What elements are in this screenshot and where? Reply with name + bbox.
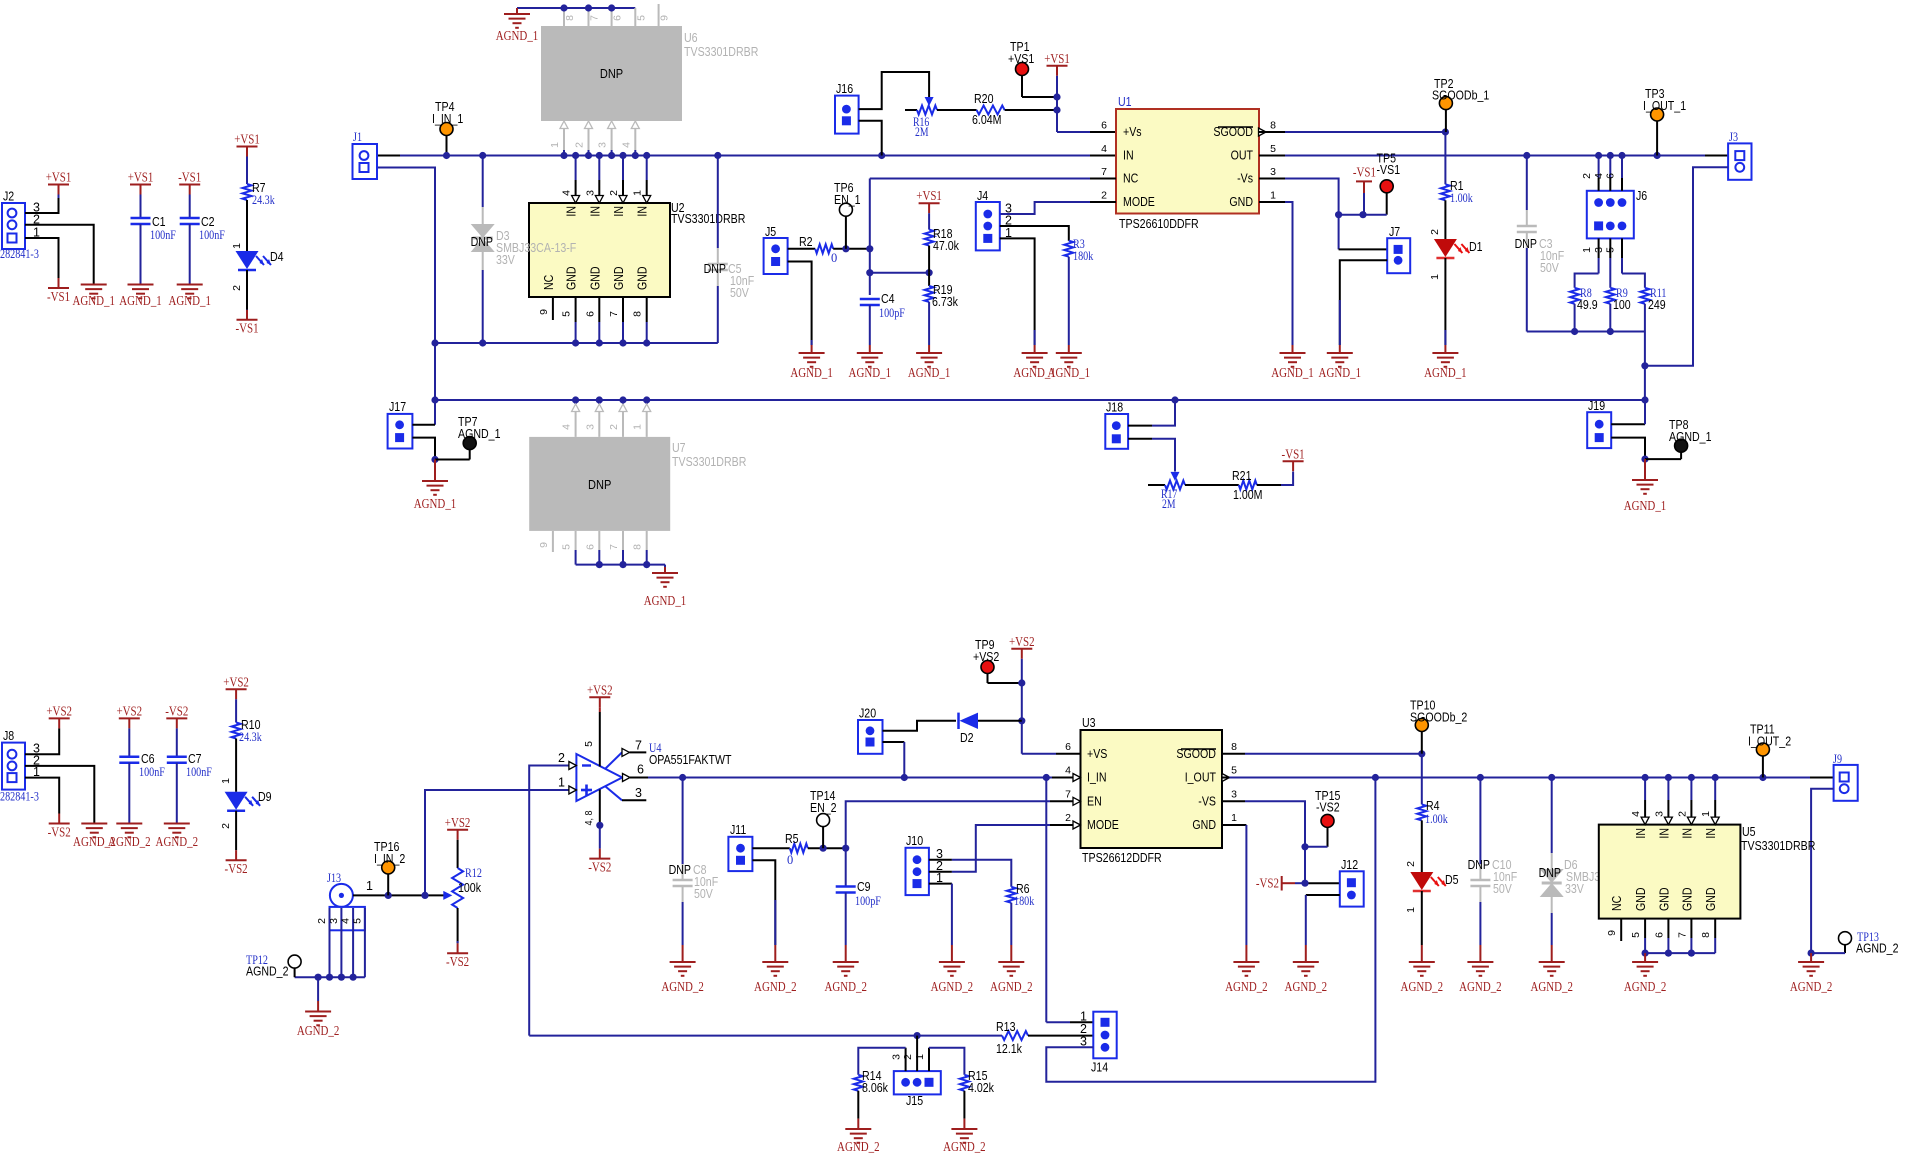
- wire EN divider: [870, 272, 929, 274]
- ground AGND_1 J4: [1034, 345, 1036, 353]
- svg-text:+VS2: +VS2: [587, 683, 613, 698]
- IC U2 TVS3301DRBR: [529, 203, 670, 297]
- svg-text:R13: R13: [996, 1020, 1016, 1034]
- svg-text:50V: 50V: [1540, 261, 1559, 275]
- svg-text:3: 3: [635, 786, 642, 800]
- wire U1 SGOOD to TP2/R1: [1259, 131, 1285, 133]
- svg-text:-VS1: -VS1: [178, 171, 201, 186]
- pin 8 U7 bottom: [646, 531, 648, 550]
- junction TP7 ground: [431, 456, 438, 463]
- svg-text:100nF: 100nF: [186, 764, 212, 779]
- capacitor C8 DNP: [682, 778, 684, 865]
- pin 7 U6 top: [588, 8, 590, 26]
- svg-text:6: 6: [584, 544, 596, 550]
- testpoint TP13 AGND_2: [1839, 932, 1852, 945]
- svg-text:180k: 180k: [1073, 248, 1094, 263]
- ground AGND_2 U3: [1245, 945, 1247, 962]
- wire return bus2: [435, 399, 1645, 401]
- capacitor C1 100nF: [131, 217, 151, 220]
- svg-text:180k: 180k: [1014, 893, 1035, 908]
- svg-text:5: 5: [1231, 765, 1237, 777]
- svg-text:8: 8: [1231, 741, 1237, 753]
- ground AGND_2 J11: [774, 945, 776, 962]
- testpoint TP8 AGND_1: [1675, 439, 1688, 452]
- junction TP8 ground: [1641, 456, 1648, 463]
- junctions J13 pin1 wire: [385, 892, 392, 899]
- svg-text:2M: 2M: [915, 125, 929, 139]
- svg-text:2: 2: [608, 424, 620, 430]
- pin 5 U6 top: [634, 8, 636, 26]
- svg-text:J3: J3: [1729, 129, 1738, 144]
- pin 9 U7: [552, 531, 554, 552]
- pin 9 U6 stub: [658, 4, 660, 26]
- svg-text:TVS3301DRBR: TVS3301DRBR: [1741, 839, 1815, 853]
- ground AGND_2 C7: [164, 823, 190, 825]
- svg-text:GND: GND: [1229, 195, 1253, 209]
- pin 6 U6 top: [611, 8, 613, 26]
- svg-text:IN: IN: [1657, 828, 1671, 839]
- svg-text:249: 249: [1648, 298, 1666, 312]
- svg-text:7: 7: [608, 311, 620, 317]
- wire J6 pin5 to R11: [1622, 274, 1645, 288]
- svg-text:2: 2: [608, 190, 620, 196]
- resistor R14 8.06k: [854, 1075, 863, 1091]
- svg-text:2: 2: [902, 1054, 914, 1060]
- connector J1: [353, 144, 378, 179]
- svg-text:-VS1: -VS1: [1353, 165, 1376, 180]
- resistor R4 1.00k: [1421, 754, 1423, 805]
- resistor R19 6.73k: [928, 273, 930, 286]
- pin 8 U6 top: [563, 8, 565, 26]
- svg-text:J2: J2: [3, 190, 14, 204]
- svg-text:AGND_1: AGND_1: [119, 294, 162, 309]
- capacitor C2 100nF: [180, 217, 200, 220]
- svg-text:100pF: 100pF: [855, 893, 881, 908]
- connector J3: [1728, 143, 1751, 179]
- ground AGND_1 U6: [516, 8, 518, 14]
- connector J4: [976, 202, 1000, 250]
- IC U6 TVS3301DRBR DNP: [541, 26, 682, 121]
- svg-text:EN: EN: [1087, 795, 1102, 809]
- svg-text:TPS26610DDFR: TPS26610DDFR: [1119, 217, 1199, 231]
- pin 4 J13 shield: [352, 908, 354, 977]
- svg-text:U6: U6: [684, 31, 698, 45]
- resistor R15 4.02k: [960, 1075, 969, 1091]
- pin 4 J6 top: [1609, 156, 1611, 179]
- pin 3 J6 bottom: [1609, 238, 1611, 258]
- pin 2 J6 top: [1598, 156, 1600, 179]
- wire J16 pin1 to R16 wiper: [859, 72, 930, 109]
- svg-text:AGND_2: AGND_2: [661, 980, 704, 995]
- svg-text:33V: 33V: [1565, 882, 1584, 896]
- ground AGND_2 J13: [305, 1011, 331, 1013]
- wire U7 ground: [576, 564, 665, 566]
- svg-text:4.02k: 4.02k: [968, 1081, 995, 1095]
- connector J14: [1093, 1012, 1116, 1059]
- resistor R13 12.1k: [917, 1035, 1002, 1037]
- wire U1 GND to ground: [1259, 201, 1285, 203]
- IC U3 TPS26612DDFR: [1081, 730, 1223, 848]
- wire J1 pin1 stub: [377, 155, 400, 157]
- capacitor C5 DNP: [717, 156, 719, 249]
- svg-text:AGND_1: AGND_1: [458, 427, 501, 441]
- pin 4 U5 IN: [1644, 778, 1646, 801]
- IC U7 TVS3301DRBR DNP: [529, 437, 670, 531]
- svg-text:AGND_2: AGND_2: [1624, 980, 1667, 995]
- svg-text:33V: 33V: [496, 253, 515, 267]
- svg-text:D4: D4: [270, 250, 284, 264]
- connector J19: [1587, 412, 1611, 448]
- svg-text:2: 2: [1101, 190, 1107, 202]
- svg-text:D1: D1: [1469, 240, 1483, 254]
- svg-text:2: 2: [316, 918, 328, 924]
- pin arrows U3: [1073, 774, 1081, 782]
- testpoint TP12 AGND_2: [288, 955, 301, 968]
- potentiometer R17 2M: [1171, 472, 1180, 481]
- power flag +VS1 J2: [48, 184, 69, 186]
- wire J8 pin2 to ground: [25, 766, 94, 824]
- svg-text:6: 6: [637, 763, 644, 777]
- wire J8 pin1 to -VS2: [25, 778, 59, 814]
- ground AGND_1 C2: [177, 284, 203, 286]
- svg-text:GND: GND: [1192, 818, 1216, 832]
- power flag +VS2 R10: [226, 688, 247, 690]
- svg-text:I_IN_2: I_IN_2: [374, 852, 405, 866]
- ground AGND_1 R3: [1068, 345, 1070, 353]
- pin 1 U2 IN: [646, 156, 648, 181]
- wire +VS2 to U3: [1021, 683, 1023, 754]
- resistor R5 0: [752, 847, 789, 849]
- svg-text:9: 9: [538, 542, 550, 548]
- svg-text:100: 100: [1613, 298, 1631, 312]
- svg-text:-VS: -VS: [1198, 795, 1216, 809]
- svg-text:EN_2: EN_2: [810, 801, 837, 815]
- svg-text:AGND_2: AGND_2: [943, 1140, 986, 1153]
- pin 1 U5 IN: [1714, 778, 1716, 801]
- wire J17 pin2 to ground: [412, 438, 435, 460]
- power flag -VS2 C7: [166, 717, 187, 719]
- svg-text:2: 2: [1065, 812, 1071, 824]
- svg-text:1: 1: [632, 424, 644, 430]
- pin 2 U7 top: [622, 400, 624, 404]
- pin 6 U5 GND: [1667, 919, 1669, 938]
- svg-text:IN: IN: [588, 206, 602, 217]
- wire I_IN to J14 pin1: [1045, 778, 1047, 1023]
- pin 5 U7 bottom: [575, 531, 577, 550]
- svg-text:7: 7: [1101, 166, 1107, 178]
- wire U1 -Vs to J7: [1259, 178, 1285, 180]
- junctions I_IN net: [679, 774, 686, 781]
- svg-text:U7: U7: [672, 441, 686, 455]
- wire opamp plus input: [425, 790, 569, 895]
- ground AGND_2 C8: [682, 945, 684, 962]
- wire U6 top ground net: [517, 7, 635, 9]
- svg-text:2: 2: [220, 823, 232, 829]
- svg-text:3: 3: [1593, 247, 1605, 253]
- wire J14 pin3 to I_OUT: [1046, 778, 1375, 1082]
- wire J10 pin1 to ground: [929, 883, 952, 885]
- svg-text:DNP: DNP: [588, 477, 611, 492]
- LED D5: [1410, 872, 1433, 890]
- junctions EN_2 node: [820, 845, 827, 852]
- pin 6 U2 GND: [598, 297, 600, 322]
- resistor R20 6.04M: [977, 106, 1005, 115]
- wire EN_2 to U3: [846, 801, 1050, 848]
- svg-text:GND: GND: [588, 266, 602, 290]
- svg-text:4: 4: [561, 424, 573, 430]
- svg-text:TVS3301DRBR: TVS3301DRBR: [671, 212, 745, 226]
- svg-text:47.0k: 47.0k: [933, 239, 960, 253]
- svg-text:4: 4: [1101, 143, 1107, 155]
- junction TP13: [1808, 950, 1815, 957]
- svg-text:3: 3: [1270, 166, 1276, 178]
- LED D9: [225, 792, 248, 810]
- svg-text:+VS: +VS: [1087, 747, 1107, 761]
- resistor R2 0: [788, 248, 816, 250]
- svg-text:R5: R5: [785, 832, 799, 846]
- svg-text:49.9: 49.9: [1577, 298, 1598, 312]
- svg-text:AGND_2: AGND_2: [1856, 942, 1899, 956]
- svg-text:R12: R12: [465, 865, 482, 880]
- wire J5 pin2 to ground: [788, 262, 812, 346]
- wire J15 pin3 to R14: [858, 1048, 905, 1075]
- svg-text:AGND_2: AGND_2: [156, 835, 199, 850]
- svg-text:1: 1: [231, 243, 243, 249]
- svg-text:J16: J16: [836, 82, 853, 96]
- svg-text:3: 3: [328, 918, 340, 924]
- svg-text:+VS1: +VS1: [916, 189, 942, 204]
- pin 7 U5 GND: [1690, 919, 1692, 938]
- svg-text:J11: J11: [730, 823, 746, 837]
- testpoint TP10 SGOODb_2: [1415, 719, 1428, 732]
- svg-text:AGND_1: AGND_1: [644, 594, 687, 609]
- svg-text:IN: IN: [612, 206, 626, 217]
- ground AGND_1 J17: [434, 460, 436, 482]
- svg-text:AGND_1: AGND_1: [414, 497, 457, 512]
- wire J3 pin2 return: [1645, 167, 1728, 365]
- wire J13 pin1: [353, 894, 388, 896]
- svg-text:8: 8: [1700, 932, 1712, 938]
- svg-text:1: 1: [632, 190, 644, 196]
- svg-text:AGND_2: AGND_2: [246, 965, 289, 979]
- svg-text:0: 0: [831, 251, 837, 265]
- pin 5 J6 bottom: [1621, 238, 1623, 258]
- svg-text:9: 9: [1606, 930, 1618, 936]
- svg-text:AGND_1: AGND_1: [496, 29, 539, 44]
- svg-text:1.00k: 1.00k: [1425, 811, 1448, 826]
- svg-text:8: 8: [1270, 120, 1276, 132]
- power flag -VS1 J2: [48, 287, 69, 289]
- svg-text:-VS1: -VS1: [47, 290, 70, 305]
- wire I_IN stub at U3: [1052, 777, 1073, 779]
- connector J13: [330, 884, 353, 907]
- ground AGND_2 C6: [116, 823, 142, 825]
- svg-text:DNP: DNP: [669, 863, 691, 877]
- pin 8 SGOOD output arrow: [1259, 128, 1267, 136]
- svg-text:AGND_2: AGND_2: [297, 1024, 340, 1039]
- junctions U5 ground: [1642, 950, 1649, 957]
- resistor R21 1.00M: [1239, 481, 1257, 490]
- ground AGND_2 R14: [857, 1119, 859, 1129]
- svg-text:MODE: MODE: [1123, 195, 1155, 209]
- pin 5 U4 +VS2: [589, 696, 610, 698]
- junctions +VS2 node: [1018, 679, 1025, 686]
- pin 2 J15 stub: [916, 1036, 918, 1072]
- ground AGND_1 J5: [811, 345, 813, 353]
- wire J6 pin1 to R8: [1575, 274, 1599, 288]
- svg-text:8: 8: [632, 311, 644, 317]
- svg-text:-VS1: -VS1: [1282, 447, 1305, 462]
- svg-text:I_OUT_1: I_OUT_1: [1643, 99, 1686, 113]
- svg-text:J10: J10: [906, 834, 923, 848]
- junctions R bottom: [1571, 328, 1578, 335]
- testpoint TP16 I_IN_2: [382, 861, 395, 874]
- svg-text:4: 4: [1065, 765, 1071, 777]
- power flag +VS1 C1: [130, 184, 151, 186]
- svg-text:+VS2: +VS2: [973, 650, 999, 664]
- svg-text:+VS2: +VS2: [117, 704, 143, 719]
- svg-text:GND: GND: [565, 266, 579, 290]
- pin 8 U5 GND: [1714, 919, 1716, 938]
- wire U3 -VS to J12: [1222, 800, 1245, 802]
- svg-text:9: 9: [659, 15, 671, 21]
- svg-text:GND: GND: [1657, 887, 1671, 911]
- svg-text:6: 6: [1653, 932, 1665, 938]
- wire J7 pin to ground: [1340, 260, 1387, 345]
- power flag +VS2 C6: [119, 717, 140, 719]
- connector J5: [764, 238, 788, 274]
- svg-text:-VS2: -VS2: [588, 861, 611, 876]
- testpoint TP3 I_OUT_1: [1651, 108, 1664, 121]
- svg-text:AGND_1: AGND_1: [849, 366, 892, 381]
- ground AGND_2 U5: [1644, 953, 1646, 962]
- svg-text:J15: J15: [906, 1094, 923, 1108]
- svg-text:6.73k: 6.73k: [932, 295, 959, 309]
- power flag -VS2 R12: [447, 952, 468, 954]
- svg-text:AGND_2: AGND_2: [1530, 980, 1573, 995]
- svg-text:12.1k: 12.1k: [996, 1042, 1023, 1056]
- svg-text:+VS1: +VS1: [234, 133, 260, 148]
- svg-text:+Vs: +Vs: [1123, 125, 1142, 139]
- svg-text:I_IN: I_IN: [1087, 771, 1107, 785]
- pin NC U5: [1620, 919, 1622, 941]
- svg-text:4, 8: 4, 8: [583, 810, 595, 825]
- wire U3 SGOOD: [1222, 753, 1245, 755]
- svg-text:8.06k: 8.06k: [862, 1081, 889, 1095]
- svg-text:3: 3: [584, 424, 596, 430]
- wire J13 gnd drop: [317, 977, 319, 1001]
- svg-text:+VS2: +VS2: [46, 704, 72, 719]
- svg-text:+VS1: +VS1: [1044, 52, 1070, 67]
- pin 7 U4: [606, 752, 623, 768]
- connector J2: [2, 203, 25, 249]
- svg-text:J20: J20: [859, 707, 876, 721]
- svg-text:-VS1: -VS1: [1377, 163, 1401, 177]
- wire +VS1 to U1 +Vs: [1056, 97, 1058, 132]
- capacitor C9 100pF: [845, 848, 847, 886]
- svg-text:3: 3: [891, 1054, 903, 1060]
- svg-text:MODE: MODE: [1087, 818, 1119, 832]
- resistor R9 100: [1609, 274, 1611, 288]
- svg-text:-VS1: -VS1: [235, 322, 258, 337]
- power flag +VS1 R7: [237, 146, 258, 148]
- junction feedback J15: [914, 1032, 921, 1039]
- junctions EN_1 node: [842, 245, 849, 252]
- wire opamp minus input: [529, 766, 569, 1036]
- svg-text:2: 2: [1676, 811, 1688, 817]
- svg-text:C9: C9: [857, 880, 871, 894]
- ground AGND_1 J19: [1644, 459, 1646, 480]
- testpoint TP15 -VS2: [1321, 814, 1334, 827]
- ground AGND_2 J8: [81, 823, 107, 825]
- wire J19 pin2 to ground: [1611, 438, 1645, 460]
- ground AGND_2 J10: [951, 945, 953, 962]
- svg-text:J13: J13: [327, 870, 341, 885]
- pin 5 U2 GND: [575, 297, 577, 322]
- svg-text:5: 5: [351, 918, 363, 924]
- svg-text:J7: J7: [1389, 225, 1400, 239]
- svg-text:1: 1: [549, 142, 561, 148]
- svg-text:3: 3: [1231, 789, 1237, 801]
- svg-text:IN: IN: [636, 206, 650, 217]
- svg-text:24.3k: 24.3k: [239, 729, 262, 744]
- svg-text:NC: NC: [1123, 172, 1138, 186]
- svg-text:J5: J5: [765, 225, 776, 239]
- wire J15 pin1 to R15: [929, 1048, 964, 1075]
- svg-text:-VS2: -VS2: [446, 955, 469, 970]
- svg-text:DNP: DNP: [1539, 866, 1561, 880]
- svg-text:AGND_2: AGND_2: [1401, 980, 1444, 995]
- svg-text:8: 8: [632, 544, 644, 550]
- svg-text:J14: J14: [1091, 1061, 1108, 1075]
- svg-text:J17: J17: [389, 400, 406, 414]
- IC U1 TPS26610DDFR: [1116, 109, 1259, 214]
- pin 1 J15 stub: [928, 1048, 930, 1071]
- capacitor C4 100pF: [860, 298, 880, 301]
- wire J4 pin2 to R3: [1000, 226, 1069, 241]
- pin 5 J13 shield: [364, 908, 366, 977]
- wire U2 ground bus: [435, 342, 718, 344]
- svg-text:DNP: DNP: [1468, 858, 1490, 872]
- pin 2 J13 shield: [329, 908, 331, 977]
- power flag -VS2 D9: [226, 859, 247, 861]
- svg-text:+VS2: +VS2: [1009, 635, 1035, 650]
- power flag +VS1 R18: [919, 202, 940, 204]
- wire J1 pin2 return: [377, 168, 435, 425]
- pin 4 U7 top: [575, 400, 577, 404]
- wire J20 pin2 to I_IN: [883, 741, 905, 743]
- svg-text:AGND_2: AGND_2: [1459, 980, 1502, 995]
- svg-text:AGND_2: AGND_2: [837, 1140, 880, 1153]
- connector J20: [858, 720, 883, 754]
- svg-text:I_OUT_2: I_OUT_2: [1748, 735, 1791, 749]
- svg-text:282841-3: 282841-3: [0, 789, 39, 804]
- svg-text:NC: NC: [1610, 896, 1624, 911]
- svg-text:4: 4: [561, 190, 573, 196]
- wire J18 pin2 to R17: [1128, 438, 1152, 440]
- svg-text:-VS2: -VS2: [225, 862, 248, 877]
- svg-text:7: 7: [608, 544, 620, 550]
- connector J15: [894, 1071, 941, 1094]
- svg-text:IN: IN: [1704, 828, 1718, 839]
- ground AGND_2 J9: [1810, 953, 1812, 962]
- svg-text:5: 5: [1270, 143, 1276, 155]
- svg-text:AGND_1: AGND_1: [1271, 366, 1314, 381]
- svg-text:+VS1: +VS1: [1008, 52, 1034, 66]
- power flag -VS2 J8: [49, 823, 70, 825]
- junctions IN_1 bus: [443, 152, 450, 159]
- wire J2 pin1 to -VS1: [25, 238, 59, 278]
